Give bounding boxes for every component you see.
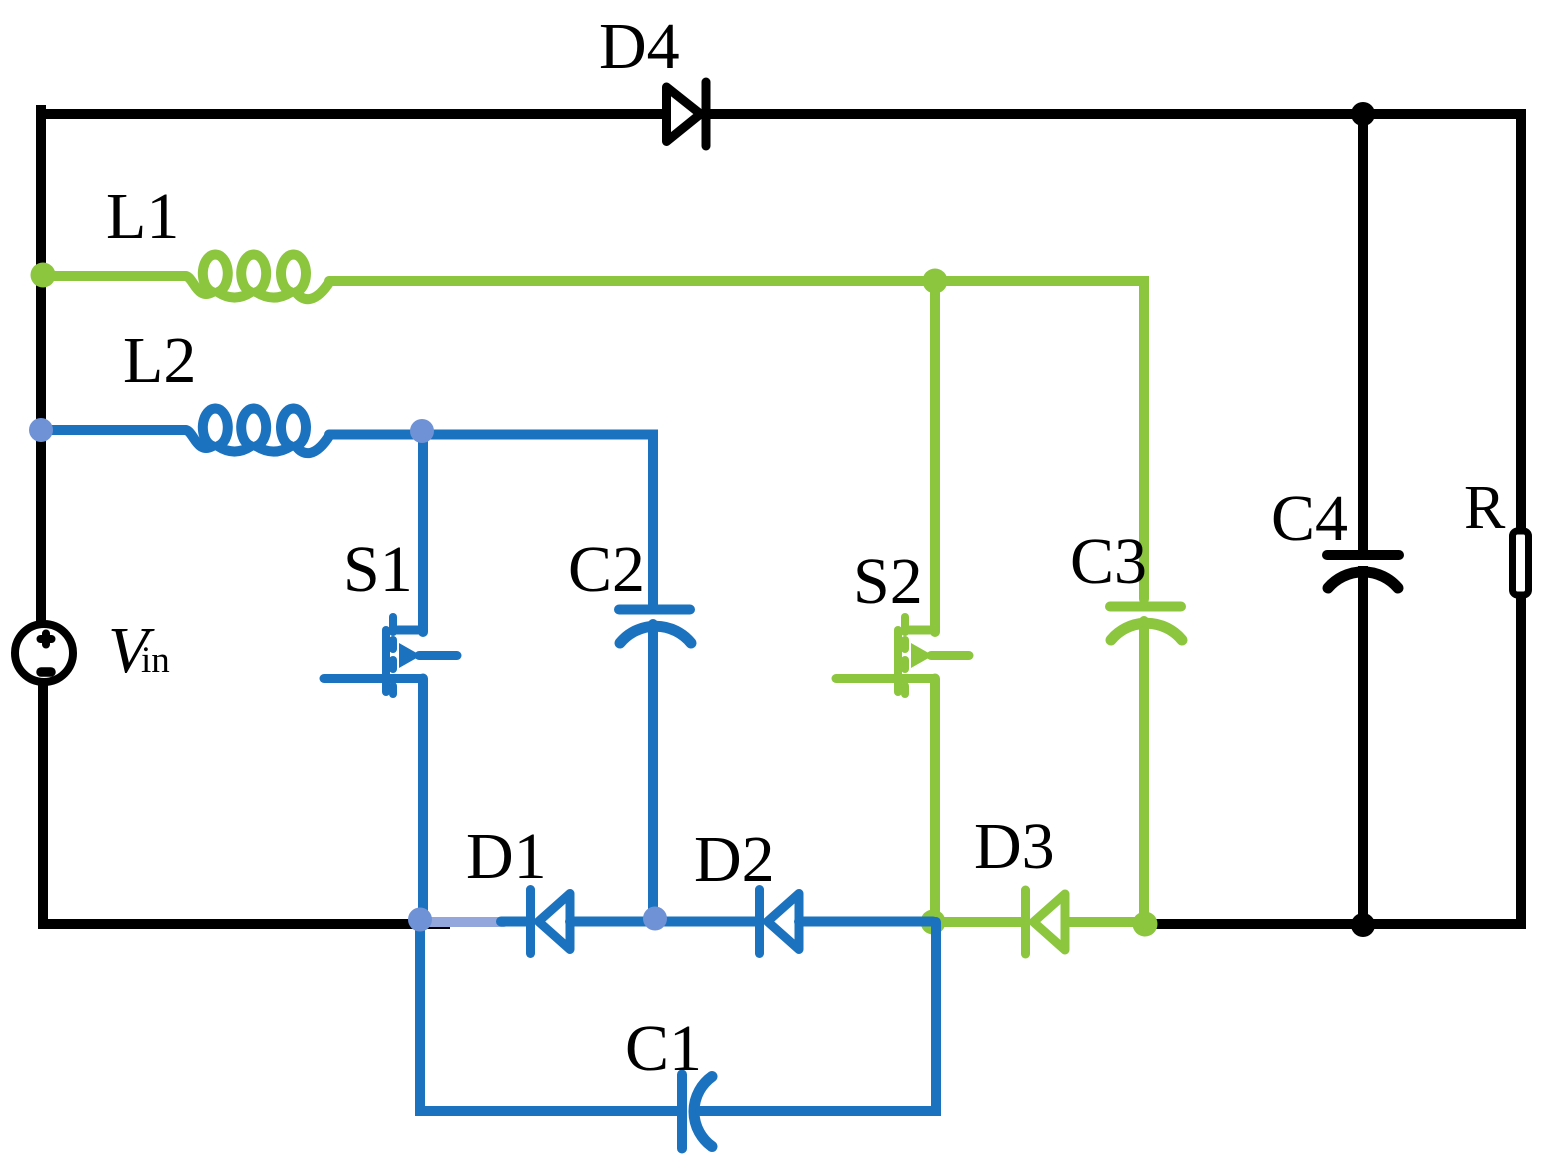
svg-text:C2: C2: [568, 533, 645, 606]
svg-text:S1: S1: [343, 533, 413, 606]
svg-text:C4: C4: [1271, 482, 1348, 555]
svg-text:D4: D4: [599, 10, 680, 83]
svg-text:L2: L2: [123, 324, 196, 397]
svg-text:in: in: [141, 640, 170, 681]
svg-text:D3: D3: [974, 810, 1055, 883]
svg-text:R: R: [1464, 474, 1506, 542]
svg-text:S2: S2: [853, 545, 923, 618]
svg-text:D2: D2: [694, 823, 775, 896]
svg-text:D1: D1: [466, 820, 547, 893]
svg-text:C1: C1: [625, 1012, 702, 1085]
svg-text:L1: L1: [106, 180, 179, 253]
svg-text:C3: C3: [1070, 525, 1147, 598]
